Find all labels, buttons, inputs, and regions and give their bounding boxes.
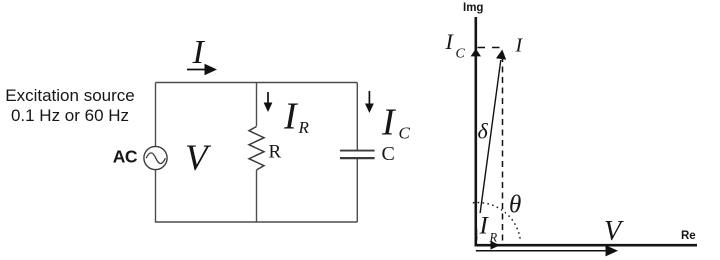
wire right branch upper <box>356 83 358 151</box>
label I_C <box>381 102 411 144</box>
svg-text:R: R <box>269 142 282 163</box>
capacitor C <box>340 151 375 159</box>
phasor V <box>476 245 618 256</box>
wire middle branch upper <box>256 83 258 127</box>
current arrow I_C <box>365 91 374 113</box>
svg-text:Excitation source: Excitation source <box>5 86 134 105</box>
angle theta dotted arc <box>473 203 521 242</box>
svg-text:I: I <box>515 35 524 57</box>
resistor R <box>249 127 264 170</box>
wire right branch lower <box>356 159 358 223</box>
svg-text:θ: θ <box>509 192 521 219</box>
svg-text:Img: Img <box>463 2 483 14</box>
svg-text:0.1 Hz or 60 Hz: 0.1 Hz or 60 Hz <box>11 106 129 125</box>
wire top (node between source, R and C) <box>156 82 358 84</box>
svg-text:I: I <box>445 29 455 54</box>
svg-text:R: R <box>489 231 498 245</box>
AC source V1 <box>144 146 167 169</box>
dashed projection line vertical (I to Re axis) <box>502 56 504 244</box>
wire left lower segment <box>155 170 157 223</box>
axis Img <box>474 17 477 246</box>
phasor I <box>476 50 506 246</box>
wire left upper segment <box>155 83 157 147</box>
svg-text:I: I <box>283 96 299 138</box>
phasor I_C arrowhead on Img axis <box>471 49 481 57</box>
svg-text:C: C <box>456 47 466 62</box>
label I_R <box>283 96 310 138</box>
svg-text:R: R <box>298 118 310 137</box>
phasor I_R arrowhead on Re axis <box>491 241 501 250</box>
svg-text:Re: Re <box>681 230 696 242</box>
svg-text:δ: δ <box>478 119 489 144</box>
svg-text:V: V <box>604 216 624 247</box>
current arrow I (top wire) <box>187 64 217 76</box>
dashed projection line horizontal (I to Img axis) <box>478 47 501 49</box>
svg-text:C: C <box>399 124 411 143</box>
current arrow I_R <box>264 92 273 112</box>
svg-text:C: C <box>382 143 395 165</box>
label I_R (phasor) <box>477 213 497 245</box>
label I_C (phasor) <box>445 29 466 62</box>
svg-text:I: I <box>381 102 397 144</box>
svg-text:V: V <box>185 138 212 179</box>
svg-text:AC: AC <box>113 147 138 167</box>
svg-text:I: I <box>192 34 206 71</box>
wire middle branch lower <box>256 170 258 222</box>
excitation source caption <box>5 86 134 125</box>
label theta <box>506 193 524 215</box>
axis Re <box>475 244 698 247</box>
wire bottom (return node) <box>156 221 358 223</box>
